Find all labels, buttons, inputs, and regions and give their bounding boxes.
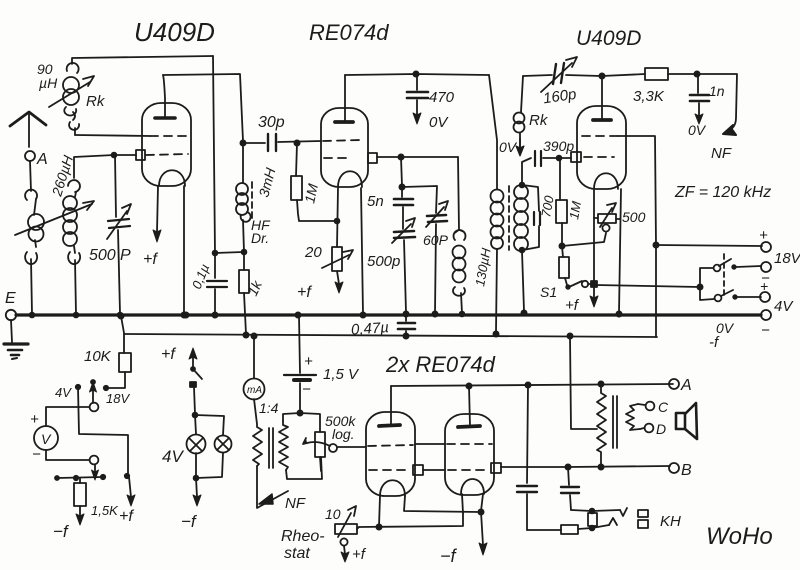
capacitor 5n bbox=[367, 187, 413, 229]
lower contacts bbox=[74, 474, 129, 480]
svg-text:Rheo-: Rheo- bbox=[281, 528, 325, 545]
label 130µH (rotated) bbox=[472, 246, 494, 287]
wire NF input arrow bbox=[257, 466, 306, 512]
svg-text:+f: +f bbox=[143, 251, 158, 268]
transformer 1:4 core bbox=[269, 428, 273, 468]
capacitor 0,1µ bbox=[207, 253, 227, 318]
node second line left on bus bbox=[118, 313, 123, 318]
node feedback junction bbox=[213, 251, 243, 256]
node switch column bbox=[653, 242, 658, 337]
IF transformer secondary coil bbox=[514, 185, 528, 316]
earth bus wire bbox=[16, 313, 761, 316]
transformer 1:4 secondary bbox=[279, 421, 288, 470]
svg-text:1:4: 1:4 bbox=[259, 400, 279, 416]
label 500 P bbox=[89, 247, 131, 264]
wire 60p branch bbox=[402, 186, 437, 213]
wire cathode bottom link bbox=[359, 513, 463, 527]
capacitor 470 to 0V bbox=[407, 74, 455, 131]
svg-text:−f: −f bbox=[181, 512, 198, 531]
wire secondary top to 390p bbox=[522, 158, 531, 185]
earth terminal E bbox=[5, 290, 16, 320]
wire 260µH top to node bbox=[74, 155, 114, 178]
tube4 cathode leads bbox=[376, 496, 480, 530]
IF transformer primary coil bbox=[491, 190, 504, 337]
svg-text:D: D bbox=[656, 421, 666, 437]
node bus x186 bbox=[183, 312, 188, 317]
rheostat 10 bbox=[325, 506, 359, 562]
wire 4V contact down to +f column bbox=[78, 387, 128, 474]
wire phone branch lower bbox=[527, 518, 617, 534]
terminal A bbox=[25, 151, 48, 168]
node IF secondary bottom bbox=[520, 248, 525, 253]
meter selector upper bbox=[90, 380, 99, 411]
svg-text:1M: 1M bbox=[566, 200, 584, 221]
capacitor 0,47µ bbox=[351, 316, 415, 339]
battery selector switch upper bbox=[700, 259, 761, 300]
node selector feed bbox=[697, 284, 702, 289]
tube1 cathode lead +f arrow bbox=[143, 186, 161, 268]
svg-text:U409D: U409D bbox=[576, 27, 641, 50]
wire tube2 anode rail bbox=[345, 74, 489, 75]
tube U409D #3 envelope bbox=[577, 106, 626, 189]
node second line x570 bbox=[567, 333, 572, 338]
svg-text:500: 500 bbox=[89, 247, 116, 264]
node bus x298 bbox=[295, 312, 300, 317]
anode line A bbox=[391, 381, 673, 388]
svg-text:0,47µ: 0,47µ bbox=[351, 319, 390, 339]
signature WoHo bbox=[706, 523, 773, 550]
label 3mH (rotated) bbox=[255, 165, 278, 199]
node 5n top bbox=[399, 157, 404, 190]
svg-text:NF: NF bbox=[285, 495, 306, 512]
title tube U409D (third) bbox=[576, 27, 641, 50]
svg-text:mA: mA bbox=[247, 385, 262, 396]
label 1M (rotated) bbox=[301, 182, 321, 205]
tube RE074d #4 envelope bbox=[366, 412, 415, 496]
svg-text:3,3K: 3,3K bbox=[633, 88, 665, 105]
svg-text:18V: 18V bbox=[106, 391, 130, 406]
wire rail corner down to IF primary bbox=[489, 75, 497, 189]
label Rk (tube3) bbox=[529, 112, 549, 129]
wire 260µH bottom to earth bus bbox=[74, 260, 79, 317]
label -f (meter) bbox=[53, 522, 70, 541]
arrow through coupling coil (variable) bbox=[15, 201, 94, 235]
svg-text:−: − bbox=[32, 446, 41, 463]
svg-text:Rk: Rk bbox=[86, 93, 106, 110]
capacitor 30p bbox=[243, 114, 321, 151]
svg-text:18V: 18V bbox=[774, 250, 800, 267]
node choke 1K junction bbox=[242, 250, 247, 255]
wire secondary bottom loop bbox=[286, 457, 322, 479]
lamp feed switch +f bbox=[161, 346, 202, 414]
transformer 1:4 primary bbox=[253, 399, 262, 466]
terminal 18V plus bbox=[759, 227, 800, 267]
output transformer primary bbox=[597, 384, 606, 467]
wire wiper to tube4 grid bbox=[337, 446, 366, 448]
terminal D bbox=[640, 421, 666, 437]
capacitor (B line bypass) bbox=[561, 467, 579, 510]
wire NF output hook bbox=[697, 74, 737, 162]
label 1k bbox=[244, 277, 265, 298]
tube3 cathode lead S1 node bbox=[590, 190, 598, 307]
label 0V -f (right) bbox=[709, 320, 735, 351]
potentiometer 500 bbox=[594, 203, 646, 232]
inductor Rk (tube3 filament choke) bbox=[514, 76, 525, 156]
wire B tube1 anode top rail bbox=[163, 74, 243, 141]
node 1n bbox=[694, 71, 699, 76]
tube5 grid pin square bbox=[491, 463, 501, 473]
resistor 3,3K bbox=[602, 68, 697, 105]
label 1:4 bbox=[259, 400, 279, 416]
terminal 4V minus bbox=[761, 310, 771, 339]
node second line mA bbox=[243, 332, 256, 338]
contact 18V bbox=[104, 386, 131, 406]
battery selector dashed link bbox=[723, 254, 725, 298]
tube3 grid dashes lower bbox=[584, 156, 614, 158]
wire battery to transformer secondary bbox=[283, 413, 300, 421]
top rail segment with 160p bbox=[523, 75, 601, 76]
svg-text:−f: −f bbox=[440, 546, 458, 566]
capacitor 390p bbox=[535, 138, 574, 166]
tube5 cathode dome bbox=[461, 479, 484, 494]
tube1 grid pin square bbox=[136, 150, 145, 160]
node tube3 anode bbox=[599, 73, 604, 78]
svg-text:A: A bbox=[680, 377, 692, 394]
label ZF = 120 kHz bbox=[674, 184, 771, 201]
svg-text:U409D: U409D bbox=[134, 17, 215, 47]
wire tube3 cathode to selector bbox=[595, 285, 700, 287]
svg-text:WoHo: WoHo bbox=[706, 523, 773, 550]
svg-text:+: + bbox=[759, 227, 768, 244]
tube5 grid dashes lower bbox=[448, 469, 488, 471]
svg-text:Rk: Rk bbox=[529, 112, 549, 129]
inductor 90µH Rk (regeneration coil) bbox=[63, 63, 79, 135]
resistor 1K bbox=[239, 252, 249, 334]
label HF Dr. bbox=[251, 217, 271, 246]
resistor 1M (tube2 grid leak) bbox=[291, 143, 336, 221]
tube2 grid dashes upper bbox=[323, 140, 362, 141]
wire coupling coil to earth bus bbox=[30, 259, 35, 317]
svg-text:500: 500 bbox=[622, 209, 646, 225]
switch S1 bbox=[566, 281, 592, 289]
tube1 anode bbox=[155, 75, 175, 118]
capacitor (A line bypass) bbox=[517, 385, 537, 530]
potentiometer 20 (cathode) bbox=[322, 188, 353, 293]
wire +f arrow (meter) bbox=[119, 477, 135, 525]
tube3 heater lead to bus bbox=[616, 189, 621, 317]
svg-text:+f: +f bbox=[565, 297, 580, 314]
svg-text:+f: +f bbox=[161, 346, 176, 363]
resistor phone shunt bbox=[588, 513, 597, 526]
wire voltmeter minus to lower selector bbox=[32, 446, 89, 463]
wire A terminal to coupling coil bbox=[30, 161, 31, 191]
variable capacitor 500p bbox=[107, 155, 131, 317]
resistor 1M (tube3 grid) bbox=[556, 159, 567, 244]
ground symbol bbox=[4, 320, 28, 359]
tube RE074d #5 envelope bbox=[445, 414, 494, 495]
label +f (tube2 cathode) bbox=[297, 284, 312, 301]
svg-text:470: 470 bbox=[429, 89, 455, 106]
label 4V (lamps) bbox=[162, 447, 184, 466]
inductor 260µH bbox=[63, 180, 80, 264]
svg-text:Dr.: Dr. bbox=[251, 230, 269, 246]
lamps bottom node bbox=[194, 453, 223, 480]
tube4 grid pin square bbox=[413, 465, 423, 475]
variable capacitor 500p (series) bbox=[367, 218, 415, 312]
wire -f arrow (output tubes) bbox=[440, 512, 487, 566]
svg-text:+: + bbox=[760, 278, 768, 294]
title tube U409D (first) bbox=[134, 17, 215, 47]
svg-text:1,5 V: 1,5 V bbox=[323, 366, 360, 383]
resistor 10K bbox=[84, 348, 131, 388]
svg-text:E: E bbox=[5, 290, 16, 307]
antenna symbol bbox=[10, 112, 46, 147]
tube3 anode bbox=[593, 76, 611, 120]
tube5 anode bbox=[458, 386, 480, 427]
svg-text:P: P bbox=[120, 247, 131, 264]
node 30p out bbox=[294, 140, 299, 145]
label 2x RE074d bbox=[385, 352, 496, 377]
svg-text:+: + bbox=[304, 353, 313, 370]
resistor below 1M node bbox=[559, 246, 569, 285]
wire -f arrow (lamps) bbox=[181, 478, 201, 531]
output transformer secondary bbox=[626, 404, 640, 430]
output transformer core bbox=[613, 396, 617, 448]
tube4 anode bbox=[379, 386, 400, 426]
svg-text:+: + bbox=[30, 411, 39, 428]
label 0V arrow (IF) bbox=[499, 139, 524, 156]
node 30p junction bbox=[240, 140, 245, 145]
wire node to 500 pot wiper bbox=[562, 233, 606, 246]
svg-text:0V: 0V bbox=[499, 139, 518, 155]
svg-text:+f: +f bbox=[352, 546, 367, 563]
tube2 cathode dome bbox=[338, 171, 362, 187]
tube3 grid pin square bbox=[571, 152, 581, 162]
svg-text:−f: −f bbox=[53, 522, 70, 541]
node 1M bottom bbox=[559, 243, 564, 248]
svg-text:RE074d: RE074d bbox=[309, 20, 389, 45]
tube2 grid pin square bbox=[368, 153, 377, 163]
svg-text:C: C bbox=[658, 399, 669, 415]
tube4 grid dashes upper bbox=[368, 445, 413, 446]
inductor 130µH grid coil bbox=[453, 157, 466, 316]
variable capacitor 60p bbox=[423, 201, 449, 317]
svg-text:log.: log. bbox=[332, 426, 355, 442]
variable capacitor 160p bbox=[541, 57, 577, 107]
grid line tube2 to 5n node bbox=[377, 154, 458, 159]
label +f (tube3 cathode) bbox=[565, 297, 580, 314]
terminal 4V plus bbox=[760, 278, 794, 315]
second supply line bbox=[121, 316, 657, 353]
wire phone branch upper bbox=[571, 508, 627, 516]
tube5 grid dashes upper bbox=[447, 443, 492, 445]
tube5 cathode leads bbox=[462, 494, 484, 515]
tube1 grid dashes upper bbox=[150, 135, 189, 137]
svg-text:1,5K: 1,5K bbox=[91, 503, 119, 518]
potentiometer 500k log bbox=[300, 413, 356, 471]
tube1 heater lead to bus bbox=[181, 186, 186, 318]
node battery minus bbox=[297, 410, 302, 415]
svg-text:5n: 5n bbox=[367, 193, 384, 210]
label Rheostat bbox=[281, 528, 325, 562]
tube3 screen wire to switch column bbox=[618, 136, 656, 245]
svg-text:390p: 390p bbox=[543, 138, 574, 154]
svg-text:µH: µH bbox=[39, 75, 58, 91]
label 20 bbox=[304, 244, 322, 261]
headphone jack KH bbox=[638, 510, 681, 530]
meter selector lower bbox=[90, 456, 99, 480]
svg-text:2x RE074d: 2x RE074d bbox=[385, 352, 496, 377]
wire selector to voltmeter plus bbox=[30, 407, 89, 428]
wire node to 18V+ terminal bbox=[656, 245, 762, 246]
tube1 cathode dome bbox=[159, 170, 185, 186]
choke HF Dr. 3mH bbox=[236, 143, 251, 252]
speaker bbox=[676, 403, 697, 439]
tube4 cathode dome bbox=[380, 480, 405, 496]
label 90 µH bbox=[37, 61, 58, 91]
svg-text:1n: 1n bbox=[709, 83, 725, 99]
arrow through Rk coil bbox=[49, 76, 94, 107]
capacitor 700 across secondary bbox=[522, 185, 540, 250]
wire vertical drop x213 to node bbox=[213, 56, 215, 253]
terminal B out bbox=[669, 462, 692, 479]
title tube RE074d (second) bbox=[309, 20, 389, 45]
label Rk bbox=[86, 93, 106, 110]
wire Rk coil bottom to tube1 grid bbox=[75, 135, 150, 136]
wire Rk coil top rail (to 0.1µ drop) bbox=[72, 56, 213, 64]
svg-text:−: − bbox=[761, 322, 770, 339]
label 1M (tube3, rotated) bbox=[566, 200, 584, 221]
node lamps top bbox=[193, 413, 198, 418]
wire tube4-tube5 grid link bbox=[415, 443, 445, 445]
tube2 anode bbox=[335, 75, 353, 122]
svg-text:20: 20 bbox=[304, 244, 322, 261]
node 470 bbox=[413, 71, 418, 76]
terminal A out bbox=[669, 377, 692, 394]
label 700 (rotated) bbox=[538, 194, 557, 219]
node IF secondary top bbox=[520, 183, 525, 188]
node tube2 cathode 1M junction bbox=[335, 219, 340, 224]
tube3 cathode dome bbox=[594, 173, 618, 189]
antenna coupling coil bbox=[25, 190, 44, 264]
svg-text:stat: stat bbox=[284, 545, 310, 562]
wire 1,5K link bbox=[55, 476, 103, 480]
IF transformer core dashed bbox=[508, 186, 510, 250]
tube U409D #1 envelope bbox=[142, 103, 191, 186]
tube4 grid dashes lower bbox=[369, 469, 408, 471]
node tube3 grid bbox=[557, 156, 571, 161]
tube3 grid dashes upper bbox=[582, 135, 618, 137]
cathode line B bbox=[501, 464, 670, 469]
node tank top bbox=[112, 153, 136, 158]
capacitor 1n to 0V bbox=[688, 74, 725, 138]
svg-text:ZF = 120 kHz: ZF = 120 kHz bbox=[674, 184, 771, 201]
battery selector switch lower bbox=[715, 290, 761, 301]
label S1 bbox=[540, 284, 557, 300]
tube2 heater lead to bus bbox=[360, 188, 365, 318]
svg-text:+f: +f bbox=[297, 284, 312, 301]
svg-text:B: B bbox=[681, 462, 692, 479]
svg-text:10: 10 bbox=[325, 506, 341, 522]
terminal 18V minus bbox=[761, 262, 771, 287]
choke core dashed bbox=[251, 182, 253, 219]
wire supply tap to output transformer bbox=[570, 336, 597, 429]
svg-text:10K: 10K bbox=[84, 348, 112, 365]
svg-text:60P: 60P bbox=[423, 232, 449, 248]
svg-text:4V: 4V bbox=[55, 385, 72, 400]
svg-text:0V: 0V bbox=[716, 320, 735, 336]
meter mA bbox=[244, 336, 265, 400]
node 500p bus bbox=[403, 311, 408, 316]
battery 1,5V bbox=[284, 316, 360, 412]
svg-text:S1: S1 bbox=[540, 284, 557, 300]
label 0,1µ (rotated) bbox=[189, 262, 212, 291]
tube1 grid dashes lower bbox=[146, 154, 188, 155]
tube RE074d #2 envelope bbox=[321, 108, 368, 187]
tube2 grid dashes lower bbox=[324, 157, 350, 159]
voltmeter V bbox=[34, 426, 58, 450]
svg-text:4V: 4V bbox=[162, 447, 184, 466]
lamp 2 bbox=[195, 415, 232, 453]
terminal C bbox=[638, 399, 669, 415]
svg-text:500p: 500p bbox=[367, 253, 400, 270]
svg-text:NF: NF bbox=[711, 145, 732, 162]
svg-text:4V: 4V bbox=[774, 298, 794, 315]
resistor 1,5K bbox=[74, 478, 119, 525]
svg-text:KH: KH bbox=[660, 513, 681, 530]
contact 4V bbox=[55, 385, 80, 400]
svg-text:A: A bbox=[36, 151, 48, 168]
svg-text:30p: 30p bbox=[258, 114, 285, 131]
svg-text:0V: 0V bbox=[429, 114, 449, 131]
label +f (rheostat) bbox=[352, 546, 367, 563]
svg-text:+f: +f bbox=[119, 508, 134, 525]
wire tube4 grid square to tube5 bbox=[423, 469, 445, 471]
lamp 1 bbox=[187, 415, 206, 454]
svg-text:−: − bbox=[302, 381, 311, 398]
svg-text:0V: 0V bbox=[688, 122, 707, 138]
label 260µH (rotated) bbox=[48, 153, 76, 199]
